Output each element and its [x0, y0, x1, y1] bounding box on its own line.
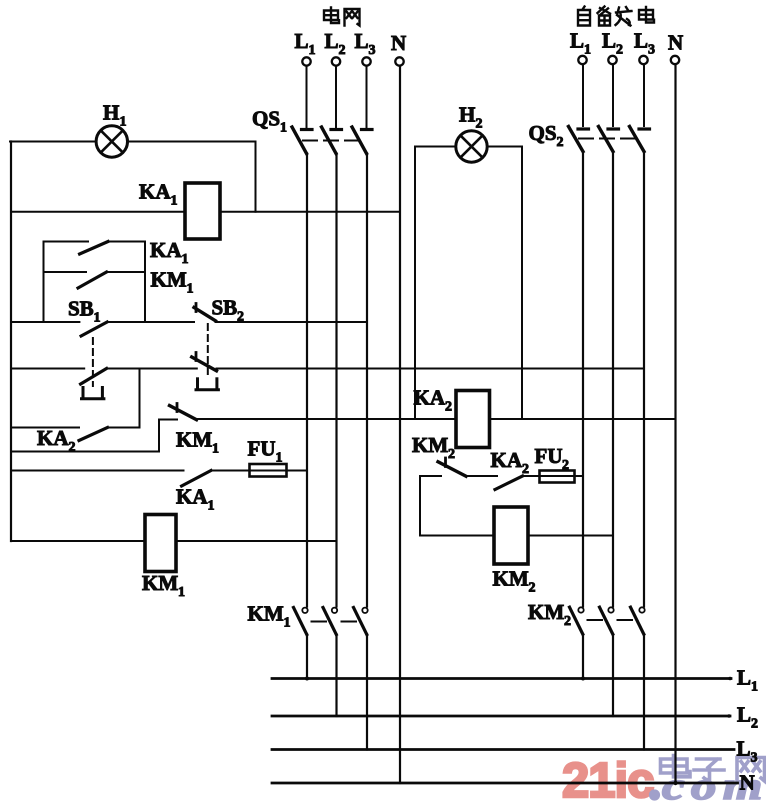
svg-text:N: N [740, 771, 755, 795]
terminal label L1 grid [295, 29, 316, 58]
lamp H1 [96, 126, 127, 157]
svg-text:KM: KM [493, 567, 529, 591]
wire KM1 coil row left [11, 540, 145, 542]
terminal L1 grid [302, 57, 310, 65]
label H1 [103, 101, 127, 130]
wire KM2 pole1 to bus [582, 634, 584, 678]
wire KM2 pole3 to bus [643, 634, 645, 749]
bus L2 [272, 715, 730, 718]
switch QS1 linkage [303, 140, 358, 142]
wire KA1 row left [11, 211, 185, 213]
relay coil KA2 [456, 391, 490, 448]
label KA1 contact [150, 238, 189, 267]
svg-text:L: L [737, 666, 751, 690]
wire KM2 pole2 to bus [612, 634, 614, 716]
svg-text:KA: KA [150, 238, 182, 262]
wire H1 row left [10, 141, 96, 143]
wire H1 row right [128, 141, 256, 143]
label KA2 aux [491, 448, 530, 477]
wire L1 stem [306, 66, 308, 127]
svg-text:QS: QS [252, 107, 280, 131]
junction N gen bus N [673, 781, 677, 785]
label KM1 coil [142, 571, 185, 600]
wire KM1 aux riser [158, 420, 160, 452]
terminal L3 gen [639, 56, 647, 64]
svg-text:H: H [459, 103, 475, 127]
svg-text:3: 3 [751, 751, 758, 766]
linkage KM2 [588, 619, 633, 621]
wire left rail [10, 142, 12, 542]
junction KM1 pole1 bus L1 [305, 677, 309, 681]
wire KM2 coil row right [528, 535, 613, 537]
svg-text:L: L [325, 29, 339, 53]
label 电网 [324, 8, 360, 26]
svg-text:2: 2 [339, 43, 346, 58]
wire fuse FU1 to L1 [287, 470, 308, 472]
wire L3 gen stem [643, 65, 645, 127]
label KM1 aux [176, 428, 219, 457]
svg-text:L: L [602, 29, 616, 53]
wire SB row2 left [11, 368, 84, 370]
junction bus L2 end dot [727, 714, 731, 718]
svg-text:1: 1 [182, 252, 189, 267]
wire control row to KA2 coil [197, 418, 457, 420]
svg-text:KA: KA [139, 180, 171, 204]
terminal label L3 gen [634, 29, 655, 58]
contactor KM1 pole 2 [323, 608, 337, 635]
label KA2 contact [37, 426, 76, 455]
svg-text:1: 1 [309, 43, 316, 58]
svg-text:21ic: 21ic [562, 754, 653, 804]
wire SB row left [11, 321, 79, 323]
dashed link SB1 [92, 338, 94, 386]
svg-text:1: 1 [584, 43, 591, 58]
label 自备发电 [578, 7, 654, 26]
svg-text:KM: KM [528, 600, 564, 624]
terminal label L3 grid [355, 29, 376, 58]
svg-text:2: 2 [69, 440, 76, 455]
switch QS2 pole 2 [599, 127, 619, 152]
wire KM1 pole2 to bus [335, 635, 337, 717]
label bus L1 [737, 666, 758, 695]
svg-text:1: 1 [187, 282, 194, 297]
lamp H2 [456, 131, 487, 162]
svg-text:1: 1 [751, 680, 758, 695]
switch QS1 pole 3 [352, 127, 372, 154]
wire fuse FU2 to L1 gen [575, 475, 584, 477]
contactor coil KM2 [494, 507, 528, 564]
bus L3 [272, 748, 734, 751]
wire KA1 aux row left [11, 470, 184, 472]
wire KM1 pole3 to bus [366, 635, 368, 750]
contact KM2 auxiliary NO [420, 458, 466, 476]
svg-text:KM: KM [412, 433, 448, 457]
switch QS2 pole 3 [630, 127, 650, 152]
wire H1 drop [255, 142, 257, 212]
wire H2 right drop [521, 147, 523, 420]
svg-text:L: L [570, 29, 584, 53]
wire KA2 contact row right [108, 427, 140, 429]
label QS2 [529, 121, 564, 150]
relay coil KA1 [185, 183, 220, 239]
label KM2 aux [412, 433, 455, 462]
contact KA2 normally open [79, 428, 108, 441]
wire SB row2 right [217, 368, 645, 370]
svg-text:SB: SB [212, 296, 238, 320]
label FU1 [248, 437, 283, 466]
wire H2 left drop [414, 147, 416, 420]
svg-text:2: 2 [529, 581, 536, 596]
svg-text:L: L [737, 703, 751, 727]
label KM1 main contacts [248, 602, 291, 631]
watermark com script [649, 765, 766, 804]
contactor KM1 pole 1 [294, 608, 308, 635]
pushbutton SB1 contact 2 [81, 369, 107, 385]
svg-text:KA: KA [37, 426, 69, 450]
svg-text:1: 1 [284, 616, 291, 631]
wire KM1 coil row right [176, 540, 337, 542]
terminal L1 gen [578, 56, 586, 64]
contactor KM2 pole 3 [631, 607, 645, 634]
svg-text:FU: FU [248, 437, 276, 461]
svg-text:1: 1 [212, 442, 219, 457]
terminal label N gen [668, 31, 683, 55]
terminal L2 grid [332, 57, 340, 65]
button head SB1 [82, 388, 104, 399]
terminal label L2 gen [602, 29, 623, 58]
svg-text:KM: KM [248, 602, 284, 626]
svg-text:2: 2 [564, 614, 571, 629]
watermark chinese 电子网 [661, 756, 765, 782]
wire SB row middle [107, 321, 194, 323]
terminal label L1 gen [570, 29, 591, 58]
label bus L3 [737, 737, 758, 766]
label KM1 contact [151, 268, 194, 297]
svg-text:KA: KA [491, 448, 523, 472]
bus N [272, 782, 738, 785]
switch QS2 pole 1 [569, 127, 589, 152]
wire L1 vertical [306, 154, 308, 607]
terminal label N grid [391, 31, 406, 55]
svg-text:SB: SB [68, 297, 94, 321]
svg-text:L: L [295, 29, 309, 53]
svg-text:2: 2 [448, 447, 455, 462]
contact KM1 auxiliary (seal-in) [44, 272, 146, 288]
wire L2 gen vertical [612, 152, 614, 607]
svg-text:N: N [391, 31, 406, 55]
svg-text:1: 1 [171, 194, 178, 209]
terminal N grid [395, 57, 403, 65]
svg-text:KA: KA [414, 386, 446, 410]
wire KA1 aux to fuse [211, 470, 250, 472]
wire KM1 pole1 to bus [306, 635, 308, 679]
fuse FU2 [540, 471, 575, 483]
label QS1 [252, 107, 287, 136]
contact KA1 auxiliary NO [182, 471, 211, 487]
contact KM1 auxiliary NO [159, 404, 197, 420]
svg-text:L: L [355, 29, 369, 53]
wire L2 stem [335, 66, 337, 127]
wire KA2 contact row left [11, 427, 79, 429]
pushbutton SB2 contact 2 [192, 353, 217, 371]
svg-text:2: 2 [476, 117, 483, 132]
svg-text:KM: KM [142, 571, 178, 595]
label H2 [459, 103, 483, 132]
svg-text:1: 1 [280, 121, 287, 136]
svg-text:2: 2 [445, 400, 452, 415]
wire KM2 coil row left [420, 535, 494, 537]
svg-text:1: 1 [178, 585, 185, 600]
svg-text:2: 2 [616, 43, 623, 58]
linkage KM1 [312, 621, 357, 623]
label bus N [740, 771, 755, 795]
wire L2 gen stem [612, 65, 614, 127]
label bus L2 [737, 703, 758, 732]
wire riser to SB row2 [139, 369, 141, 428]
terminal N gen [671, 56, 679, 64]
switch QS1 pole 1 [292, 127, 312, 154]
pushbutton SB2 contact 1 [194, 304, 216, 321]
wire seal box right [144, 242, 146, 323]
wire KM2 aux riser [419, 476, 421, 536]
wire L3 gen vertical [643, 152, 645, 607]
svg-text:1: 1 [208, 499, 215, 514]
svg-text:H: H [103, 101, 119, 125]
wire N grid vertical [399, 66, 401, 783]
contact KA1 auxiliary (seal-in) [44, 242, 146, 255]
wire L3 vertical [366, 154, 368, 607]
terminal L3 grid [362, 57, 370, 65]
pushbutton SB1 contact 1 [81, 322, 107, 336]
label KM2 main contacts [528, 600, 571, 629]
svg-text:L: L [737, 737, 751, 761]
wire L1 gen stem [582, 65, 584, 127]
svg-text:2: 2 [751, 717, 758, 732]
label SB2 [212, 296, 245, 325]
svg-text:N: N [668, 31, 683, 55]
wire L3 stem [366, 66, 368, 127]
contactor KM2 pole 2 [600, 607, 614, 634]
junction bus L1 end dot [728, 677, 732, 681]
wire KA2 coil to N gen [490, 418, 676, 420]
svg-text:KM: KM [176, 428, 212, 452]
terminal L2 gen [608, 56, 616, 64]
label FU2 [535, 444, 570, 473]
wire L2 vertical [335, 154, 337, 607]
wire KA1 row right [220, 211, 400, 213]
svg-text:L: L [634, 29, 648, 53]
contactor KM2 pole 1 [570, 607, 584, 634]
fuse FU1 [250, 464, 287, 477]
switch QS2 linkage [579, 138, 635, 140]
contactor KM1 pole 3 [354, 608, 368, 635]
svg-text:QS: QS [529, 121, 557, 145]
junction KM2 pole1 bus L1 [581, 677, 585, 681]
wire KA2 contact to fuse FU2 [523, 475, 540, 477]
button head SB2 [196, 379, 218, 390]
dashed link SB2 [207, 324, 209, 377]
label KA1 coil [139, 180, 178, 209]
svg-text:KA: KA [176, 485, 208, 509]
wire H2 row right [487, 146, 522, 148]
wire N gen vertical [674, 65, 676, 784]
svg-text:KM: KM [151, 268, 187, 292]
svg-text:3: 3 [648, 43, 655, 58]
svg-text:FU: FU [535, 444, 563, 468]
watermark 21ic [562, 754, 653, 804]
label KA1 aux [176, 485, 215, 514]
wire KM1 aux lower lead [11, 451, 159, 453]
wire SB row2 middle [107, 368, 197, 370]
label KA2 coil [414, 386, 453, 415]
terminal label L2 grid [325, 29, 346, 58]
bus L1 [272, 677, 731, 680]
switch QS1 pole 2 [322, 127, 342, 154]
svg-text:3: 3 [369, 43, 376, 58]
contactor coil KM1 [145, 515, 176, 572]
wire L1 gen vertical [582, 152, 584, 607]
wire SB row right [216, 321, 368, 323]
contact KA2 auxiliary NO [495, 476, 523, 490]
label KM2 coil [493, 567, 536, 596]
svg-text:1: 1 [94, 311, 101, 326]
wire H2 row left [415, 146, 456, 148]
svg-text:2: 2 [557, 135, 564, 150]
wire KM2 aux to KA2 contact [466, 475, 497, 477]
wire seal box left [43, 242, 45, 323]
label SB1 [68, 297, 101, 326]
